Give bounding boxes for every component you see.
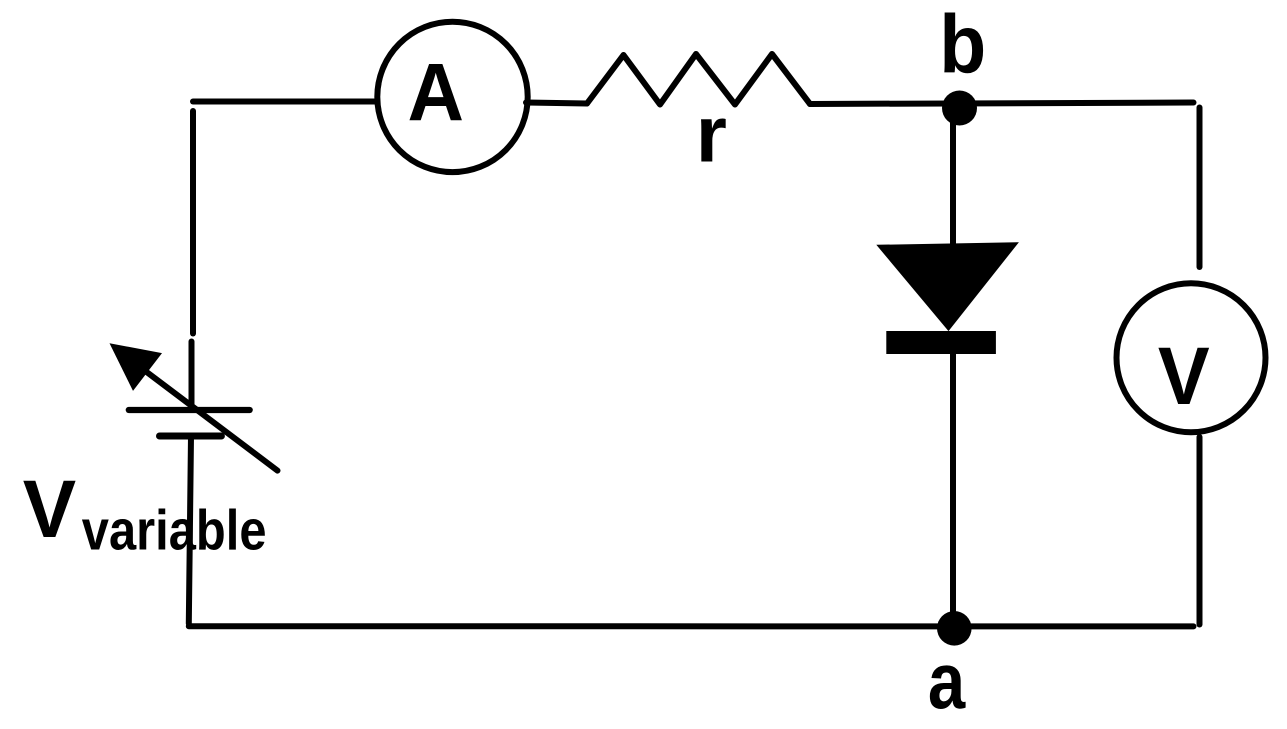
wire left vertical middle xyxy=(189,342,195,410)
wire left vertical upper xyxy=(190,111,196,334)
wire bottom horizontal xyxy=(189,623,1194,629)
label V_variable xyxy=(23,464,267,563)
ammeter A xyxy=(377,22,527,172)
battery variable source: arrowhead xyxy=(110,343,163,391)
resistor r xyxy=(587,54,810,179)
svg-text:b: b xyxy=(939,0,986,91)
svg-text:r: r xyxy=(696,90,727,179)
wire resistor to top-right corner xyxy=(810,103,1194,105)
diode D1 cathode bar xyxy=(886,331,996,354)
node b xyxy=(939,0,986,126)
svg-text:A: A xyxy=(408,48,465,139)
wire diode to node a xyxy=(950,352,956,627)
wire right vertical upper xyxy=(1197,108,1203,268)
wire node b to diode xyxy=(950,104,956,246)
svg-text:variable: variable xyxy=(82,499,267,563)
svg-text:a: a xyxy=(928,636,966,725)
battery variable source: long plate xyxy=(129,407,250,413)
svg-text:V: V xyxy=(1158,331,1210,422)
battery variable source: short plate xyxy=(160,433,222,440)
battery variable source: arrow shaft xyxy=(147,373,277,471)
diode D1 triangle xyxy=(876,242,1019,331)
wire right vertical lower xyxy=(1197,437,1203,625)
wire top-left horizontal xyxy=(193,99,379,105)
voltmeter V xyxy=(1117,283,1266,432)
wire left vertical lower xyxy=(189,436,191,624)
svg-text:V: V xyxy=(23,464,77,555)
wire ammeter to resistor xyxy=(526,103,587,104)
node a xyxy=(928,611,972,725)
